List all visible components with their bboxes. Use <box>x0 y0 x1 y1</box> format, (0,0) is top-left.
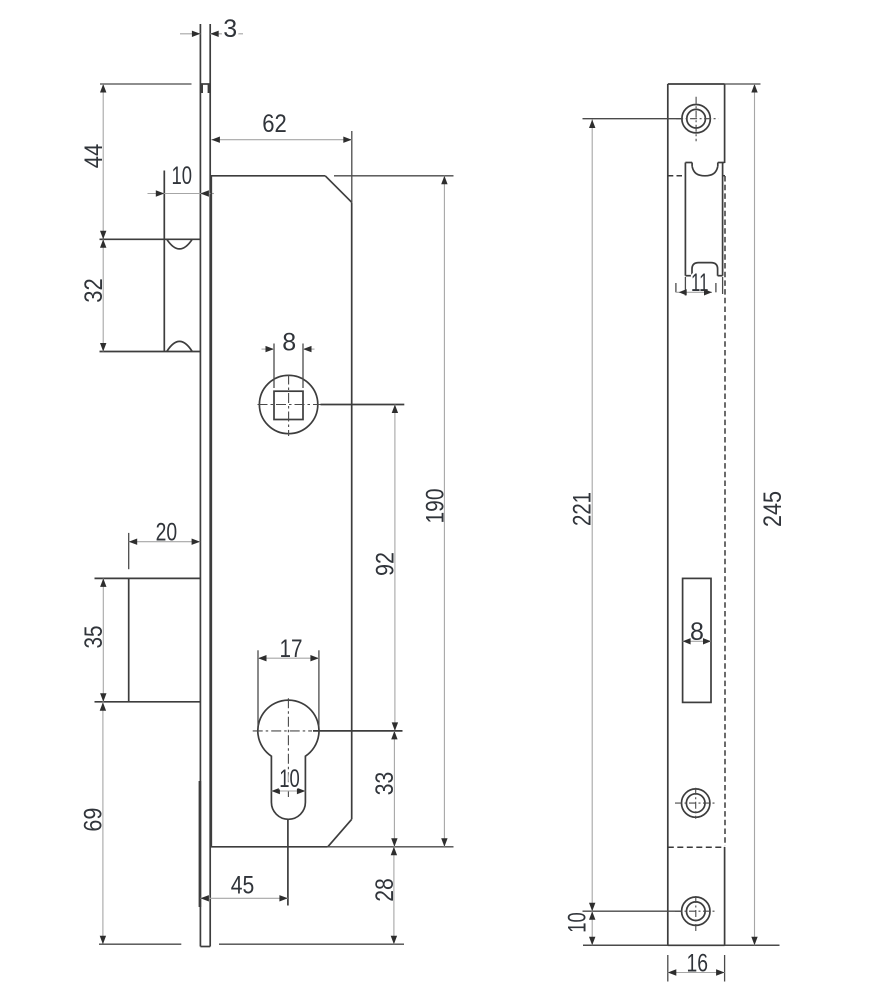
svg-text:20: 20 <box>156 519 178 547</box>
deadbolt cutout <box>683 578 711 702</box>
svg-text:32: 32 <box>80 278 108 303</box>
hidden case bottom edge (dashed) <box>668 846 725 848</box>
dimension 245 (faceplate length) <box>751 84 786 945</box>
dimension 10 (bottom screw to end) <box>563 911 595 945</box>
latch bolt top edge <box>100 238 201 240</box>
latch cutout extension stubs <box>685 277 722 296</box>
svg-text:16: 16 <box>686 950 708 978</box>
dimension 20 (deadbolt throw) <box>129 519 200 570</box>
svg-text:35: 35 <box>80 626 108 649</box>
dimension 62 (case width) <box>211 110 351 202</box>
svg-text:44: 44 <box>80 144 108 169</box>
dimension 92 (spindle to cylinder) <box>371 405 399 731</box>
spindle vertical centerline <box>288 375 290 437</box>
svg-text:221: 221 <box>568 492 596 526</box>
svg-text:190: 190 <box>421 489 449 524</box>
deadbolt front edge <box>128 578 130 701</box>
dimension 11 (latch cutout width) <box>676 269 716 297</box>
dimension 45 (backset) <box>200 871 288 901</box>
dimension 33 (cylinder to case bottom) <box>371 731 399 847</box>
dimension 221 (screw hole centers) <box>568 120 596 912</box>
top screw hole M5 <box>676 97 718 141</box>
bottom reference line <box>99 943 404 945</box>
latch bolt top bevel arc <box>167 239 192 249</box>
hidden case right edge (dashed) <box>724 176 726 846</box>
latch cutout top concave arc <box>692 166 718 176</box>
cylinder vertical centerline <box>287 698 289 797</box>
dimension 10 (keyway width) <box>271 765 305 794</box>
lock case right edge <box>351 202 353 819</box>
dimension 8 (deadbolt cutout width) <box>683 618 711 646</box>
faceplate edge view, right line <box>209 24 211 947</box>
middle screw hole M5 <box>675 788 717 819</box>
lock case bottom edge <box>211 846 328 848</box>
latch cutout left wall <box>684 163 686 276</box>
dimension 35 (deadbolt height) <box>80 578 108 701</box>
dimension 32 (latch bolt height) <box>80 239 108 351</box>
dimension 190 (case height) <box>421 176 449 847</box>
dimension 69 (deadbolt to bottom) <box>79 702 107 944</box>
svg-text:45: 45 <box>231 871 255 899</box>
latch bolt bottom bevel arc <box>167 341 192 351</box>
svg-text:10: 10 <box>279 765 300 793</box>
deadbolt bottom edge <box>95 701 201 703</box>
extension line top (y=84) <box>100 83 192 85</box>
cylinder bottom extension line (45 dim) <box>287 820 289 906</box>
hidden case line at latch (dashed) <box>668 175 725 177</box>
dimension 10 (latch protrusion) <box>148 162 215 197</box>
svg-text:10: 10 <box>563 912 591 933</box>
dimension 28 (case bottom to plate bottom) <box>371 847 399 944</box>
dimension 44 (top edge to latch) <box>80 84 108 239</box>
svg-text:3: 3 <box>223 15 237 43</box>
lock case top-right chamfer <box>325 176 352 203</box>
cylinder horizontal centerline <box>253 730 312 732</box>
faceplate front right edge lower <box>724 847 726 945</box>
cylinder center extension line <box>313 730 403 732</box>
faceplate inner plate top edge at y=84 <box>200 84 210 93</box>
svg-text:8: 8 <box>282 328 296 356</box>
svg-text:92: 92 <box>371 552 399 576</box>
svg-text:33: 33 <box>371 772 399 796</box>
221 bottom extension line <box>583 910 682 912</box>
dimension 3 (faceplate thickness) <box>180 15 243 43</box>
dimension 16 (faceplate width) <box>668 950 725 982</box>
euro cylinder profile hole <box>258 700 319 819</box>
svg-text:245: 245 <box>759 491 787 527</box>
latch cutout top edges <box>685 163 724 167</box>
faceplate thick segment (lower reinforcement) <box>199 781 202 907</box>
deadbolt top edge <box>95 577 201 579</box>
lock case bottom extension line <box>328 846 454 848</box>
svg-text:62: 62 <box>262 110 287 138</box>
spindle follower circle <box>259 375 317 433</box>
spindle square hole 8mm <box>274 391 303 419</box>
faceplate edge view (3mm strip), left line <box>199 24 201 947</box>
221 top extension line <box>583 118 682 120</box>
dimension 17 (cylinder diameter) <box>258 635 319 726</box>
svg-text:10: 10 <box>171 162 192 190</box>
svg-text:17: 17 <box>280 635 303 663</box>
faceplate front right edge upper <box>724 84 726 163</box>
bottom screw hole M5 <box>675 896 717 932</box>
lock case top edge <box>211 175 325 177</box>
svg-text:8: 8 <box>690 618 704 646</box>
faceplate front top edge <box>668 83 725 85</box>
latch cutout bottom edges <box>685 275 722 277</box>
dimension 8 (square follower) <box>262 328 315 388</box>
spindle horizontal centerline <box>258 404 321 406</box>
latch bolt bottom edge <box>100 351 201 353</box>
svg-text:69: 69 <box>79 808 107 832</box>
lock case top extension line <box>334 175 454 177</box>
faceplate bottom cap <box>200 946 210 948</box>
faceplate front bottom edge <box>583 944 780 946</box>
latch bolt tip edge <box>163 171 165 352</box>
spindle center extension line <box>321 404 405 406</box>
lock case bottom-right chamfer <box>328 819 352 847</box>
lock case left edge <box>210 176 212 847</box>
top edge extension to 245 dim <box>725 83 761 85</box>
svg-text:28: 28 <box>371 878 399 902</box>
faceplate front left edge <box>667 84 669 945</box>
latch bolt nose (front view dome) <box>692 263 718 276</box>
latch cutout right wall <box>722 163 724 276</box>
